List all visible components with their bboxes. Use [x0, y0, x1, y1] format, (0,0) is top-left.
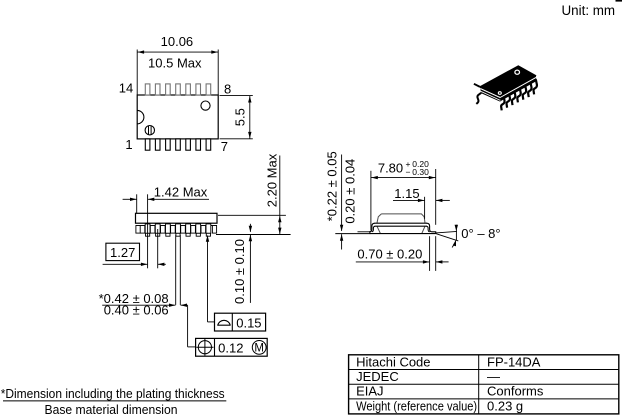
dimension 5.5 (body width): [220, 95, 253, 97]
lead angle 0-8 degrees: [436, 231, 457, 233]
svg-text:Hitachi Code: Hitachi Code: [356, 354, 430, 369]
svg-text:10.06: 10.06: [161, 34, 194, 49]
package data table: [349, 355, 619, 414]
svg-text:Conforms: Conforms: [487, 384, 544, 399]
svg-text:0.40 ± 0.06: 0.40 ± 0.06: [104, 302, 169, 317]
svg-text:Unit: mm: Unit: mm: [562, 3, 616, 18]
svg-text:*Dimension including the plati: *Dimension including the plating thickne…: [1, 386, 225, 401]
end view body outline: [377, 214, 425, 234]
end view lead frame band: [375, 222, 428, 224]
svg-text:0.15: 0.15: [236, 315, 261, 330]
svg-text:Base material dimension: Base material dimension: [45, 402, 178, 416]
svg-text:1: 1: [125, 137, 132, 152]
position symbol: [198, 341, 211, 354]
svg-text:0° – 8°: 0° – 8°: [461, 226, 500, 241]
leader to position tolerance box: [187, 305, 189, 347]
top view semicircle notch on left edge: [137, 110, 144, 123]
circled M modifier: [252, 341, 266, 355]
svg-text:1.42 Max: 1.42 Max: [154, 184, 208, 199]
svg-text:JEDEC: JEDEC: [356, 369, 399, 384]
dimension 1.15 (lead projection): [424, 197, 426, 219]
svg-text:2.20 Max: 2.20 Max: [265, 153, 280, 207]
svg-text:1.27: 1.27: [110, 245, 135, 260]
page border corner mark: [616, 0, 622, 2]
dimension 1.27 (lead pitch) boxed: [106, 243, 140, 260]
svg-text:14: 14: [119, 81, 133, 96]
left gull-wing lead: [370, 223, 375, 233]
3D package illustration: [474, 66, 537, 111]
dimension 10.06 (package length): [136, 50, 138, 95]
dimension 0.70 (foot length): [429, 236, 431, 271]
svg-text:1.15: 1.15: [394, 186, 419, 201]
seating plane line: [216, 234, 291, 236]
seating plane symbol: [217, 320, 230, 325]
svg-text:0.20 ± 0.04: 0.20 ± 0.04: [342, 159, 357, 224]
coplanarity leader arrow: [207, 236, 209, 322]
svg-text:Weight (reference value): Weight (reference value): [356, 398, 477, 413]
dimension 1.42 Max (body edge to lead 1): [136, 194, 138, 213]
svg-text:0.23 g: 0.23 g: [487, 398, 523, 413]
side view lead shoulder line: [136, 225, 217, 227]
side view far-row leads: [136, 226, 217, 234]
top view index circle (top-right): [201, 101, 210, 110]
svg-text:—: —: [487, 369, 500, 384]
dimension 0.42/0.40 (lead width): [175, 235, 177, 305]
svg-text:7: 7: [221, 139, 228, 154]
side view body outline: [136, 213, 218, 223]
lead foot reference lines: [358, 231, 371, 233]
dimension 2.20 Max (package height): [218, 214, 286, 216]
svg-text:−: −: [406, 167, 411, 177]
svg-text:8: 8: [224, 82, 231, 97]
dimension 0.22/0.20 (lead thickness): [341, 155, 343, 231]
top view pin-1 index mark (circle with vertical bars): [145, 126, 154, 135]
top view lower pin row (pins 1-7): [145, 139, 210, 150]
position tolerance box 0.12 M: [196, 338, 268, 356]
coplanarity tolerance box 0.15: [215, 313, 266, 331]
svg-text:0.12: 0.12: [218, 341, 243, 356]
svg-text:10.5 Max: 10.5 Max: [148, 56, 202, 71]
svg-text:0.10 ± 0.10: 0.10 ± 0.10: [232, 239, 247, 304]
svg-text:5.5: 5.5: [233, 108, 248, 126]
side view near-row leads with feet: [145, 224, 211, 236]
top view upper pin row (pins 8-14): [145, 84, 210, 95]
svg-text:M: M: [254, 343, 264, 355]
top view body outline: [137, 95, 218, 139]
svg-text:EIAJ: EIAJ: [356, 384, 383, 399]
right gull-wing lead: [427, 223, 436, 233]
svg-text:0.70 ± 0.20: 0.70 ± 0.20: [357, 246, 422, 261]
svg-text:FP-14DA: FP-14DA: [487, 354, 541, 369]
dimension 7.80 (lead span): [370, 171, 372, 231]
svg-text:*0.22 ± 0.05: *0.22 ± 0.05: [325, 151, 340, 221]
svg-text:0.30: 0.30: [412, 167, 429, 177]
svg-text:7.80: 7.80: [378, 161, 403, 176]
dimension 0.10 +/- 0.10 (standoff): [249, 224, 251, 232]
